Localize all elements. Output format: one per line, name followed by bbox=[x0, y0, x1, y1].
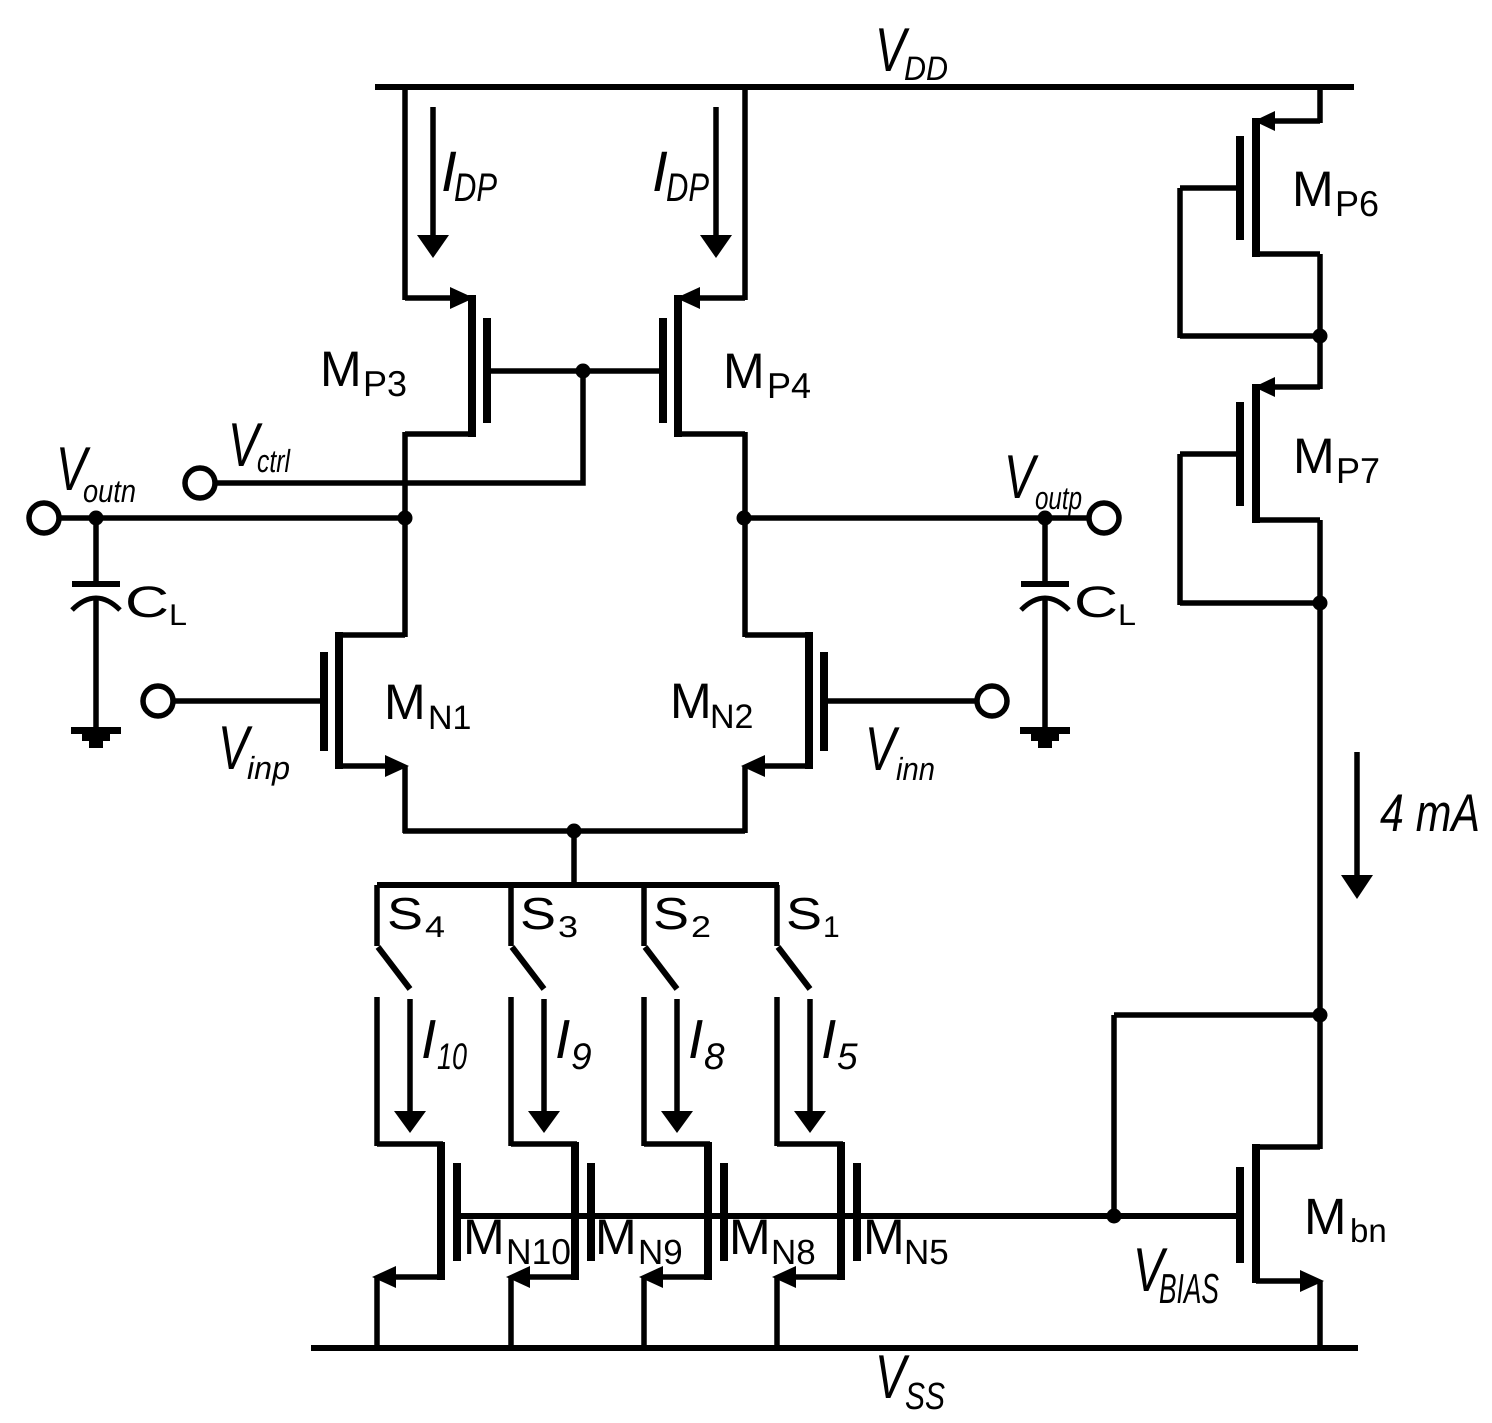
svg-text:outn: outn bbox=[83, 473, 136, 509]
svg-text:V: V bbox=[865, 715, 900, 784]
svg-text:N8: N8 bbox=[771, 1233, 816, 1272]
svg-text:2: 2 bbox=[691, 911, 711, 944]
svg-text:N9: N9 bbox=[638, 1233, 683, 1272]
svg-text:M: M bbox=[1292, 161, 1334, 217]
svg-text:P7: P7 bbox=[1336, 450, 1380, 491]
svg-text:ctrl: ctrl bbox=[257, 443, 291, 479]
svg-text:N2: N2 bbox=[710, 698, 753, 736]
svg-text:1: 1 bbox=[823, 911, 840, 944]
svg-text:BIAS: BIAS bbox=[1159, 1265, 1219, 1312]
svg-text:9: 9 bbox=[571, 1036, 592, 1077]
svg-text:V: V bbox=[1004, 443, 1039, 512]
svg-text:I: I bbox=[688, 1008, 703, 1070]
svg-text:M: M bbox=[670, 673, 712, 729]
svg-text:L: L bbox=[1118, 599, 1136, 632]
svg-text:4: 4 bbox=[425, 911, 445, 944]
svg-text:DD: DD bbox=[904, 50, 948, 88]
svg-text:S: S bbox=[520, 888, 556, 939]
svg-text:3: 3 bbox=[558, 911, 578, 944]
svg-text:bn: bn bbox=[1350, 1212, 1387, 1249]
svg-text:I: I bbox=[821, 1008, 836, 1070]
svg-text:C: C bbox=[125, 578, 169, 627]
svg-text:5: 5 bbox=[837, 1036, 858, 1077]
svg-text:P3: P3 bbox=[363, 363, 407, 404]
svg-text:M: M bbox=[384, 674, 426, 730]
svg-text:L: L bbox=[169, 599, 187, 632]
svg-text:M: M bbox=[729, 1209, 771, 1265]
svg-text:P6: P6 bbox=[1335, 183, 1379, 224]
svg-text:M: M bbox=[863, 1209, 905, 1265]
svg-text:inp: inp bbox=[247, 750, 290, 786]
svg-text:N5: N5 bbox=[904, 1233, 949, 1272]
svg-text:M: M bbox=[1304, 1188, 1346, 1245]
svg-text:C: C bbox=[1074, 578, 1118, 627]
svg-text:S: S bbox=[387, 888, 423, 939]
svg-text:M: M bbox=[320, 341, 362, 397]
svg-text:P4: P4 bbox=[767, 365, 811, 406]
svg-text:N1: N1 bbox=[428, 699, 471, 737]
svg-text:inn: inn bbox=[896, 751, 935, 787]
svg-text:M: M bbox=[1293, 428, 1335, 484]
svg-text:I: I bbox=[421, 1008, 436, 1070]
svg-text:outp: outp bbox=[1035, 480, 1082, 516]
svg-text:I: I bbox=[555, 1008, 570, 1070]
svg-text:8: 8 bbox=[704, 1036, 725, 1077]
svg-text:4 mA: 4 mA bbox=[1380, 784, 1480, 843]
svg-text:S: S bbox=[653, 888, 689, 939]
svg-text:DP: DP bbox=[666, 166, 709, 210]
svg-text:M: M bbox=[723, 343, 765, 399]
svg-text:S: S bbox=[786, 888, 822, 939]
svg-text:N10: N10 bbox=[506, 1231, 571, 1272]
svg-text:M: M bbox=[595, 1209, 637, 1265]
svg-text:10: 10 bbox=[437, 1036, 467, 1077]
svg-text:SS: SS bbox=[905, 1376, 945, 1418]
svg-text:DP: DP bbox=[454, 166, 497, 210]
svg-text:M: M bbox=[463, 1209, 505, 1265]
